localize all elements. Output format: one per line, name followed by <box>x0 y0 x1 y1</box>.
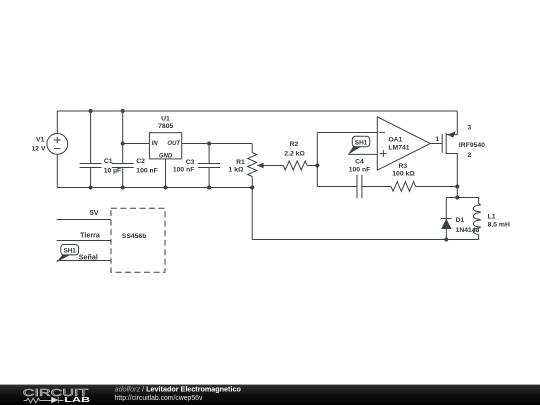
label C1 <box>104 158 122 175</box>
junction C2 IN <box>121 142 125 146</box>
svg-text:C3: C3 <box>186 159 195 166</box>
wire OA1 output to gate <box>430 143 442 145</box>
svg-text:C2: C2 <box>136 158 145 165</box>
logo squiggle resistor and diode <box>24 397 64 404</box>
svg-text:5V: 5V <box>90 208 99 217</box>
junction R3 source <box>455 185 459 189</box>
transistor Q1 IRF9540 <box>442 111 457 198</box>
wire C2 to IN <box>123 143 150 145</box>
wire R3 to source node <box>416 186 458 188</box>
wire OUT rail <box>182 143 253 145</box>
svg-text:Señal: Señal <box>79 252 98 261</box>
net flag SH1 op-amp input <box>348 136 370 154</box>
wire V1 top <box>56 111 58 134</box>
diode D1 <box>441 198 452 240</box>
svg-text:100 nF: 100 nF <box>349 167 371 174</box>
svg-text:12 V: 12 V <box>32 146 46 153</box>
potentiometer R1 <box>248 144 284 240</box>
svg-text:100 nF: 100 nF <box>136 168 158 175</box>
wire 5V pin <box>57 219 111 221</box>
svg-text:OUT: OUT <box>167 141 181 147</box>
svg-text:IN: IN <box>152 141 159 147</box>
junction R1 bottom rail <box>250 186 254 190</box>
connector box SS456b <box>111 208 165 272</box>
junction C2 top <box>121 109 125 113</box>
junction C3 top <box>207 142 211 146</box>
svg-text:1: 1 <box>435 136 439 143</box>
junction C1 top <box>89 109 93 113</box>
svg-text:100 nF: 100 nF <box>173 166 195 173</box>
svg-text:U1: U1 <box>161 116 170 123</box>
svg-text:1N4148: 1N4148 <box>456 227 480 234</box>
wire Tierra pin <box>57 240 111 242</box>
wire U1 GND <box>165 159 167 188</box>
svg-text:100 kΩ: 100 kΩ <box>392 170 415 177</box>
wire SH1 to noninverting input <box>348 153 377 155</box>
capacitor C1 <box>80 111 102 188</box>
net flag SH1 senal <box>56 245 78 263</box>
wire top rail <box>57 110 457 112</box>
junction D1 bottom <box>444 238 448 242</box>
label V1 <box>32 137 46 153</box>
wire bottom rail <box>57 187 252 189</box>
wire C4 to R3 <box>362 186 391 188</box>
wire node to C4 <box>317 186 357 188</box>
wire return to R1 <box>252 239 446 241</box>
svg-text:8.5 mH: 8.5 mH <box>488 221 510 228</box>
svg-text:C4: C4 <box>355 159 364 166</box>
svg-text:IRF9540: IRF9540 <box>459 142 485 149</box>
label R3 <box>392 163 415 177</box>
label C3 <box>173 159 195 174</box>
wire V1 bottom <box>56 154 58 187</box>
svg-text:GND: GND <box>159 153 173 159</box>
capacitor C2 <box>112 111 134 188</box>
label C4 <box>349 159 371 174</box>
svg-text:1 kΩ: 1 kΩ <box>229 166 244 173</box>
label L1 <box>488 213 510 228</box>
wire feedback node vertical <box>316 133 318 187</box>
svg-text:R2: R2 <box>290 141 299 148</box>
svg-text:10 µF: 10 µF <box>104 168 122 175</box>
label R2 <box>284 141 305 157</box>
wire R2 to node <box>307 165 317 167</box>
svg-text:R1: R1 <box>236 159 245 166</box>
svg-text:3: 3 <box>467 125 471 132</box>
svg-text:Tierra: Tierra <box>80 230 101 239</box>
svg-text:2.2 kΩ: 2.2 kΩ <box>284 151 305 158</box>
resistor R3 <box>391 182 416 192</box>
svg-text:SS456b: SS456b <box>122 233 147 240</box>
capacitor C4 <box>357 175 362 198</box>
label U1 <box>158 116 173 130</box>
svg-text:D1: D1 <box>456 217 465 224</box>
junction GND bottom <box>164 186 168 190</box>
svg-text:R3: R3 <box>398 163 407 170</box>
label R1 <box>229 159 246 174</box>
junction R2 node <box>315 164 319 168</box>
svg-text:7805: 7805 <box>158 123 173 130</box>
inductor L1 <box>473 198 480 240</box>
svg-text:SH1: SH1 <box>64 248 77 255</box>
svg-text:LM741: LM741 <box>388 144 409 151</box>
svg-text:SH1: SH1 <box>355 139 368 146</box>
svg-text:C1: C1 <box>104 158 113 165</box>
label OA1 <box>388 136 409 151</box>
svg-text:LAB: LAB <box>64 395 90 404</box>
capacitor C3 <box>198 144 220 188</box>
svg-text:OA1: OA1 <box>388 136 402 143</box>
wire node to inverting input <box>317 132 377 134</box>
regulator U1 7805 <box>149 133 181 160</box>
svg-text:V1: V1 <box>36 137 45 144</box>
svg-text:adolforz / Levitador Electroma: adolforz / Levitador Electromagnetico <box>115 385 242 394</box>
junction D1 L1 top <box>455 196 459 200</box>
label D1 <box>456 217 480 234</box>
svg-text:2: 2 <box>467 152 471 159</box>
junction C1 bottom <box>89 186 93 190</box>
svg-text:http://circuitlab.com/cwep56v: http://circuitlab.com/cwep56v <box>115 395 203 402</box>
junction C3 bottom <box>207 186 211 190</box>
svg-text:L1: L1 <box>488 213 496 220</box>
resistor R2 <box>283 161 307 170</box>
label C2 <box>136 158 158 175</box>
wire Senal pin <box>57 260 111 262</box>
wire D1 L1 bottom <box>446 239 478 241</box>
voltage source V1 <box>47 134 68 155</box>
junction C2 bottom <box>121 186 125 190</box>
wire D1 L1 top <box>446 197 478 199</box>
op-amp OA1 <box>377 117 430 170</box>
